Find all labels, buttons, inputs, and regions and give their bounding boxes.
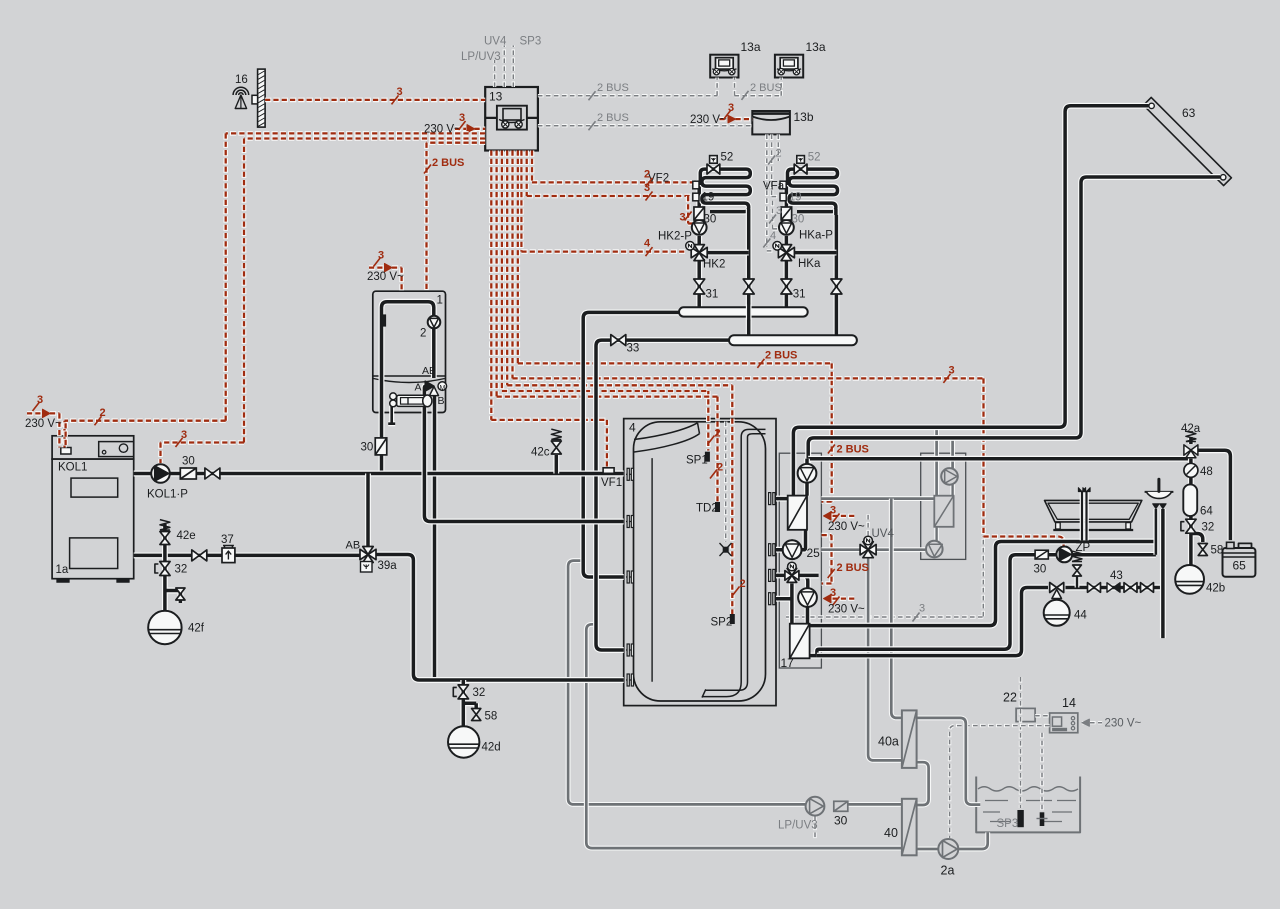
module pump middle <box>783 540 802 559</box>
svg-text:14: 14 <box>1062 696 1076 710</box>
svg-text:25: 25 <box>807 546 821 560</box>
valves on line 43 <box>1088 583 1095 593</box>
svg-text:HKa: HKa <box>798 258 821 270</box>
wire stub below pump LP/UV3 <box>813 817 816 841</box>
svg-text:2 BUS: 2 BUS <box>837 444 869 456</box>
wire stub to tank thermometer <box>724 422 727 543</box>
tank left wall port flanges <box>626 473 634 475</box>
label 3 on antenna wire <box>392 95 399 104</box>
wire 2 BUS controller 13 to receiver 13b <box>538 124 752 127</box>
safety valve 42c <box>551 429 561 439</box>
drain valve 58 at KOL1 <box>176 588 185 594</box>
wall boiler 3-way valve with A/B ports <box>425 381 434 391</box>
tank top diffuser duct <box>634 423 698 440</box>
wire LP/UV3 stub above controller 13 <box>493 60 496 87</box>
pump1 to DHW trunk <box>804 459 810 464</box>
shutoff valve 32 under tank <box>458 685 468 692</box>
wire 14 to pool pump 2a <box>950 726 1050 838</box>
solar pipe collector to module (supply) <box>793 106 1148 496</box>
svg-text:17: 17 <box>781 656 795 670</box>
svg-text:64: 64 <box>1200 506 1213 518</box>
module right port stub <box>799 572 819 578</box>
wire 230V annotation at KOL1 <box>27 411 42 416</box>
svg-text:3: 3 <box>680 212 686 224</box>
svg-text:2 BUS: 2 BUS <box>837 562 869 574</box>
gray pipe 40 to pool pump 2a <box>917 847 938 852</box>
svg-text:230 V~: 230 V~ <box>828 604 865 616</box>
svg-text:4: 4 <box>644 238 651 250</box>
HKa radiator coil <box>788 169 838 212</box>
svg-text:LP/UV3: LP/UV3 <box>461 51 501 63</box>
svg-text:LP/UV3: LP/UV3 <box>778 820 818 832</box>
pipe to valve 44 line <box>817 588 1048 656</box>
svg-text:B: B <box>438 395 445 407</box>
svg-text:33: 33 <box>627 343 640 355</box>
solar transfer module pump lower <box>926 541 943 558</box>
svg-text:58: 58 <box>485 711 498 723</box>
svg-text:VF1: VF1 <box>601 477 622 489</box>
wire 14 down to pool electrode <box>1040 733 1043 811</box>
svg-text:3: 3 <box>378 250 384 262</box>
drain valve 58 right column <box>1198 544 1207 550</box>
bathtub <box>1045 500 1142 522</box>
wire UV4 stub above controller 13 <box>503 46 506 88</box>
svg-text:2: 2 <box>100 407 106 419</box>
svg-text:30: 30 <box>834 814 848 828</box>
tank internal riser pipe <box>741 429 765 437</box>
svg-text:2 BUS: 2 BUS <box>750 82 782 94</box>
svg-text:31: 31 <box>793 289 806 301</box>
svg-text:1: 1 <box>437 295 443 307</box>
solar pipe collector return <box>808 177 1220 464</box>
shutoff valve on return trunk <box>192 550 200 561</box>
wall boiler B-port down pipe <box>432 390 438 680</box>
tank sensor SP1 <box>705 452 709 461</box>
svg-text:22: 22 <box>1003 691 1017 705</box>
check valve 30 HKa <box>781 207 792 220</box>
canister 65 <box>1223 548 1256 577</box>
receiver 13b <box>752 111 790 134</box>
svg-text:M: M <box>440 385 446 392</box>
wall boiler gas stub <box>388 406 395 424</box>
swimming pool basin <box>976 777 1080 833</box>
column 48-64-32-42b <box>1191 459 1203 565</box>
wire stub UV4 motor <box>866 514 869 535</box>
wall boiler internal pump 2 <box>428 316 441 329</box>
shutoff valve on supply trunk <box>205 468 213 479</box>
svg-text:230 V~: 230 V~ <box>424 124 461 136</box>
sensors VFa and 19 <box>780 181 786 189</box>
wire 2 to tank sensor TD2 <box>497 151 718 502</box>
wall boiler valve to A-port pipe <box>424 386 623 521</box>
svg-text:31: 31 <box>706 289 719 301</box>
solar transfer module heat exchanger <box>934 496 953 527</box>
wire bus line left upper <box>65 133 486 447</box>
wall boiler flow sensor <box>381 315 385 326</box>
wire 3 from module to pool flow switch 22 <box>786 538 983 617</box>
sensors VF2 and 19 <box>693 181 699 189</box>
wire 2 to heating circuit sensor VF2 <box>532 151 694 183</box>
pool electrodes SP3 <box>1018 811 1023 827</box>
svg-text:KOL1·P: KOL1·P <box>147 489 188 501</box>
shutoff valve 32 right column <box>1186 519 1196 526</box>
riser HK2 return crossing upper manifold <box>746 215 752 335</box>
wire 2 to tank sensor SP1 <box>502 151 708 451</box>
svg-text:AB: AB <box>422 365 436 377</box>
svg-text:230 V~: 230 V~ <box>1105 718 1142 730</box>
riser HK2 supply <box>696 258 702 307</box>
pump KOL1-P <box>151 464 170 483</box>
svg-text:42b: 42b <box>1206 583 1225 595</box>
gray pipes inside solar transfer module <box>950 484 955 496</box>
module pump upper <box>798 464 817 483</box>
sink tap symbols <box>1153 504 1159 509</box>
gray pipe 40a to 40 <box>917 762 929 805</box>
wire to flow switch 22 and pool sensor SP3 <box>1019 677 1022 808</box>
solar transfer module box <box>921 453 966 559</box>
svg-text:3: 3 <box>644 182 650 194</box>
svg-text:230 V~: 230 V~ <box>828 521 865 533</box>
module mixing valve with motor <box>785 571 792 581</box>
svg-text:19: 19 <box>702 192 715 204</box>
lower heating manifold <box>729 335 857 345</box>
check valve 30 wall boiler <box>375 438 387 455</box>
svg-text:63: 63 <box>1182 106 1196 120</box>
mixing valve HKa with motor <box>778 247 786 257</box>
230V label at KOL1 <box>33 402 40 411</box>
svg-text:2: 2 <box>644 169 650 181</box>
safety group 42e/32/42f at KOL1 <box>165 524 181 611</box>
tub taps <box>1078 488 1082 492</box>
svg-text:30: 30 <box>182 456 195 468</box>
module pump lower <box>798 588 817 607</box>
svg-text:SP3: SP3 <box>997 818 1019 830</box>
svg-text:42f: 42f <box>188 623 205 635</box>
svg-text:2 BUS: 2 BUS <box>432 157 464 169</box>
wire 22 to 14 <box>1035 714 1050 717</box>
svg-text:32: 32 <box>1202 522 1215 534</box>
svg-text:4: 4 <box>629 421 636 435</box>
wall boiler burner unit <box>390 393 397 400</box>
radio antenna 16 with wall plate <box>258 69 266 127</box>
wire 2 BUS to fresh water module <box>518 151 832 502</box>
svg-text:58: 58 <box>1211 545 1224 557</box>
pressure gauge 48 <box>1184 463 1198 477</box>
svg-text:ZP: ZP <box>1076 542 1091 554</box>
svg-text:UV4: UV4 <box>484 36 507 48</box>
svg-text:2: 2 <box>776 148 782 160</box>
wire 3 to circulation pump ZP and solar module <box>513 151 1064 547</box>
storage tank 4 vessel <box>634 422 766 701</box>
tank port to lower manifold riser with valve 33 <box>596 340 731 650</box>
svg-text:32: 32 <box>473 687 486 699</box>
flow switch 22 <box>1016 708 1035 721</box>
red bus labels center <box>757 359 764 368</box>
heat exchanger 25 <box>788 496 807 530</box>
wall boiler left internal loop <box>382 302 434 408</box>
svg-text:2 BUS: 2 BUS <box>765 350 797 362</box>
wire 230V annotation receiver 13b <box>720 117 729 122</box>
svg-text:UV4: UV4 <box>872 528 895 540</box>
three-way valve 39a with actuator <box>360 549 368 559</box>
shutoff valve 33 <box>611 335 619 346</box>
svg-text:37: 37 <box>221 534 234 546</box>
tub tap risers <box>1080 492 1085 540</box>
svg-text:32: 32 <box>175 564 188 576</box>
sensor VF1 on supply trunk <box>603 468 614 474</box>
svg-text:1a: 1a <box>56 564 69 576</box>
label 2 BUS red at boiler wire <box>424 165 431 174</box>
svg-text:HK2-P: HK2-P <box>658 231 692 243</box>
svg-text:30: 30 <box>361 442 374 454</box>
svg-text:3: 3 <box>728 102 734 114</box>
HK2 pump-valve connections <box>699 180 749 253</box>
solar collector 63 <box>1143 97 1231 185</box>
pool control 14 <box>1050 713 1078 733</box>
check valve 30 on LP/UV3 line <box>834 801 848 811</box>
svg-text:42a: 42a <box>1181 423 1201 435</box>
svg-text:65: 65 <box>1233 559 1247 573</box>
svg-text:52: 52 <box>808 152 821 164</box>
tank sensor TD2 <box>716 503 720 512</box>
expansion vessel 42b <box>1175 565 1204 594</box>
svg-text:13: 13 <box>489 90 503 104</box>
wire 2 KOL1 sensor <box>63 421 68 445</box>
svg-text:3: 3 <box>397 86 403 98</box>
circulation pump ZP <box>1056 547 1072 563</box>
storage tank 4 outer box <box>624 419 776 706</box>
room controller 13a (right) <box>775 55 803 78</box>
gray pipe lower tank drain to exchanger 40 <box>586 624 901 848</box>
wall-hung boiler 1 <box>373 291 446 412</box>
svg-text:39a: 39a <box>378 560 398 572</box>
wire 3 to heating circuit sensor 19 <box>527 151 691 197</box>
safety valve on line 43 <box>1072 551 1082 561</box>
svg-text:3: 3 <box>776 205 782 217</box>
svg-text:16: 16 <box>235 74 248 86</box>
svg-text:13a: 13a <box>741 40 761 54</box>
svg-text:230 V~: 230 V~ <box>25 418 62 430</box>
svg-text:40a: 40a <box>878 735 899 749</box>
heat exchanger 40 <box>902 799 917 856</box>
fill unit 37 <box>222 548 235 563</box>
tank inner baffle line <box>651 458 653 682</box>
diverting valve UV4 with motor <box>860 545 868 555</box>
wire 2 BUS module internal link <box>822 535 832 583</box>
riser HKa return <box>833 215 839 335</box>
pipe 39a to tank bottom port <box>376 555 624 681</box>
svg-text:SP3: SP3 <box>520 36 542 48</box>
svg-text:30: 30 <box>792 214 805 226</box>
HK2 radiator coil <box>700 169 750 212</box>
svg-text:3: 3 <box>830 587 836 599</box>
svg-text:13b: 13b <box>794 110 814 124</box>
radiator valve 52 HKa <box>794 164 800 174</box>
gray pipe pool outlet to pump 2a <box>959 832 988 849</box>
wires from 13b down to HKa circuit <box>767 134 774 251</box>
svg-text:19: 19 <box>789 192 802 204</box>
svg-text:2: 2 <box>715 428 721 440</box>
wire 230V annotation fresh water module upper <box>830 514 855 519</box>
gray pipe module to solar transfer module upper <box>821 496 936 501</box>
gravity brake 30 after KOL1-P <box>180 468 196 479</box>
svg-text:3: 3 <box>919 603 925 615</box>
pump HK2-P <box>692 220 707 235</box>
svg-text:3: 3 <box>181 429 187 441</box>
heat exchanger 17 <box>790 624 810 659</box>
gray pipe UV4 line <box>821 547 926 552</box>
expansion vessel 42f <box>148 611 181 644</box>
radiator valve 52 HK2 <box>707 164 713 174</box>
sensor wire digit labels <box>708 436 715 445</box>
air separator 64 <box>1183 484 1197 516</box>
230V label at wall boiler <box>374 258 381 267</box>
check valve 30 HK2 <box>694 207 705 220</box>
boiler KOL1 cabinet 1a <box>52 436 134 459</box>
svg-text:2: 2 <box>740 578 746 590</box>
solar transfer module pump upper <box>941 468 958 485</box>
labels HKa wires gray digits <box>768 156 775 165</box>
svg-text:2a: 2a <box>941 864 955 878</box>
valve riser HKa return <box>831 279 842 287</box>
washbasin <box>1145 491 1174 493</box>
svg-text:3: 3 <box>459 112 465 124</box>
svg-text:SP1: SP1 <box>686 455 708 467</box>
svg-text:SP2: SP2 <box>711 617 733 629</box>
wire 2 BUS to wall boiler <box>427 143 486 292</box>
svg-text:TD2: TD2 <box>696 503 718 515</box>
riser HKa supply <box>783 258 789 307</box>
wire 230V annotation fresh water module lower <box>830 596 855 601</box>
svg-text:48: 48 <box>1200 466 1213 478</box>
wire 4 to mixing valve HK2 motor <box>521 151 685 252</box>
wire 3 antenna to controller 13 <box>265 98 485 103</box>
wire 230V into controller 13 <box>455 127 466 132</box>
valve 32/58/42d under tank <box>463 680 476 726</box>
svg-text:13a: 13a <box>806 40 826 54</box>
module 25 internal pipes <box>776 483 807 550</box>
gray pipe solar trunk taps <box>934 427 939 496</box>
safety valve 42c stub <box>553 455 559 474</box>
sink left riser <box>1153 509 1158 555</box>
safety valve above line 43 <box>1075 576 1080 588</box>
wire 230V stub at pool control 14 <box>1082 721 1102 724</box>
2 BUS labels top gray <box>589 91 596 100</box>
svg-text:A: A <box>415 382 422 394</box>
circulation line ZP <box>810 555 1036 656</box>
svg-text:43: 43 <box>1110 570 1123 582</box>
svg-text:KOL1: KOL1 <box>58 462 87 474</box>
svg-text:3: 3 <box>949 365 955 377</box>
tank port to upper manifold riser <box>583 312 681 577</box>
svg-text:42e: 42e <box>177 530 196 542</box>
riser crossing over upper manifold <box>746 305 752 320</box>
svg-text:230 V~: 230 V~ <box>367 271 404 283</box>
svg-text:230 V~: 230 V~ <box>690 114 727 126</box>
supply trunk KOL1 to tank <box>134 471 624 477</box>
svg-text:4: 4 <box>770 230 776 242</box>
pool pump 2a <box>938 839 958 859</box>
tank right wall port flanges <box>769 493 771 505</box>
wire 3 sensor to pump HK2-P <box>688 196 694 224</box>
check valve 30 on ZP line <box>1035 550 1048 559</box>
pump LP/UV3 <box>806 797 825 816</box>
tank thermometer <box>720 543 732 556</box>
svg-text:44: 44 <box>1074 610 1087 622</box>
wire 2 to tank sensor SP2 <box>507 151 732 615</box>
wire 3 from HKa sensor to pump HKa-P <box>773 201 779 229</box>
labels HK wires red digits <box>646 178 653 187</box>
module valve connections <box>776 575 808 623</box>
svg-text:2: 2 <box>420 328 426 340</box>
gray pipe tank to LP/UV3 line <box>568 561 806 805</box>
room controller 13a (left) <box>710 55 738 78</box>
fresh water module box (25/17) <box>779 453 821 668</box>
gray pipe to exchanger 40a upper <box>891 499 903 718</box>
svg-text:HKa-P: HKa-P <box>799 230 833 242</box>
mixing valve HK2 with motor <box>691 247 699 257</box>
svg-text:42c: 42c <box>531 447 550 459</box>
pump HKa-P <box>779 220 794 235</box>
wire left lower to KOL1 pump <box>161 139 486 464</box>
valve 31 riser HK2 <box>694 279 705 287</box>
svg-text:HK2: HK2 <box>703 259 725 271</box>
svg-text:3: 3 <box>830 505 836 517</box>
controller 13 <box>485 87 538 151</box>
return trunk KOL1 to valve 39a <box>134 552 360 558</box>
svg-text:2 BUS: 2 BUS <box>597 82 629 94</box>
svg-text:30: 30 <box>704 214 717 226</box>
trunk exchanger 17 to pipes right <box>810 542 1156 626</box>
svg-text:30: 30 <box>1034 564 1047 576</box>
wire SP3 stub above controller 13 <box>512 46 515 88</box>
sink riser long stub <box>1160 509 1166 638</box>
safety valve 42e <box>160 520 170 530</box>
valve 39a to supply trunk vertical <box>365 474 371 547</box>
domestic hot water trunk <box>808 456 1191 462</box>
wall boiler supply down pipe with check <box>379 404 385 474</box>
HKa pump-valve connections <box>786 180 836 253</box>
svg-text:2: 2 <box>717 462 723 474</box>
valve riser HK2 return <box>743 279 754 287</box>
42a safety branch and blowoff to canister <box>1191 437 1231 540</box>
safety valve 42a <box>1186 431 1196 441</box>
valve 31 riser HKa <box>781 279 792 287</box>
line 43 with valves <box>1066 585 1163 591</box>
shutoff valve 32 at KOL1 <box>160 562 170 569</box>
wire 2 BUS controller 13 to 13a units <box>538 78 781 96</box>
three-way valve at vessel 44 <box>1050 583 1057 593</box>
expansion vessel 44 <box>1044 600 1070 626</box>
drain valve 58 under tank <box>472 709 481 715</box>
expansion vessel 42d <box>448 726 479 757</box>
wire 2 to boiler sensor VF1 <box>491 151 607 467</box>
svg-text:52: 52 <box>721 152 734 164</box>
gray pipe 40a to pool inlet <box>917 718 981 805</box>
svg-text:42d: 42d <box>482 742 501 754</box>
gray pipe UV4 down to exchanger 40a <box>868 558 903 761</box>
svg-text:AB: AB <box>346 540 361 552</box>
svg-text:2 BUS: 2 BUS <box>597 112 629 124</box>
tank sensor SP2 <box>730 615 734 624</box>
svg-text:40: 40 <box>884 826 898 840</box>
svg-text:VFa: VFa <box>763 181 785 193</box>
upper heating manifold <box>679 307 808 316</box>
wire 230V annotation at wall boiler <box>369 265 385 270</box>
gray 3 label near module <box>913 613 920 622</box>
svg-text:3: 3 <box>37 394 43 406</box>
